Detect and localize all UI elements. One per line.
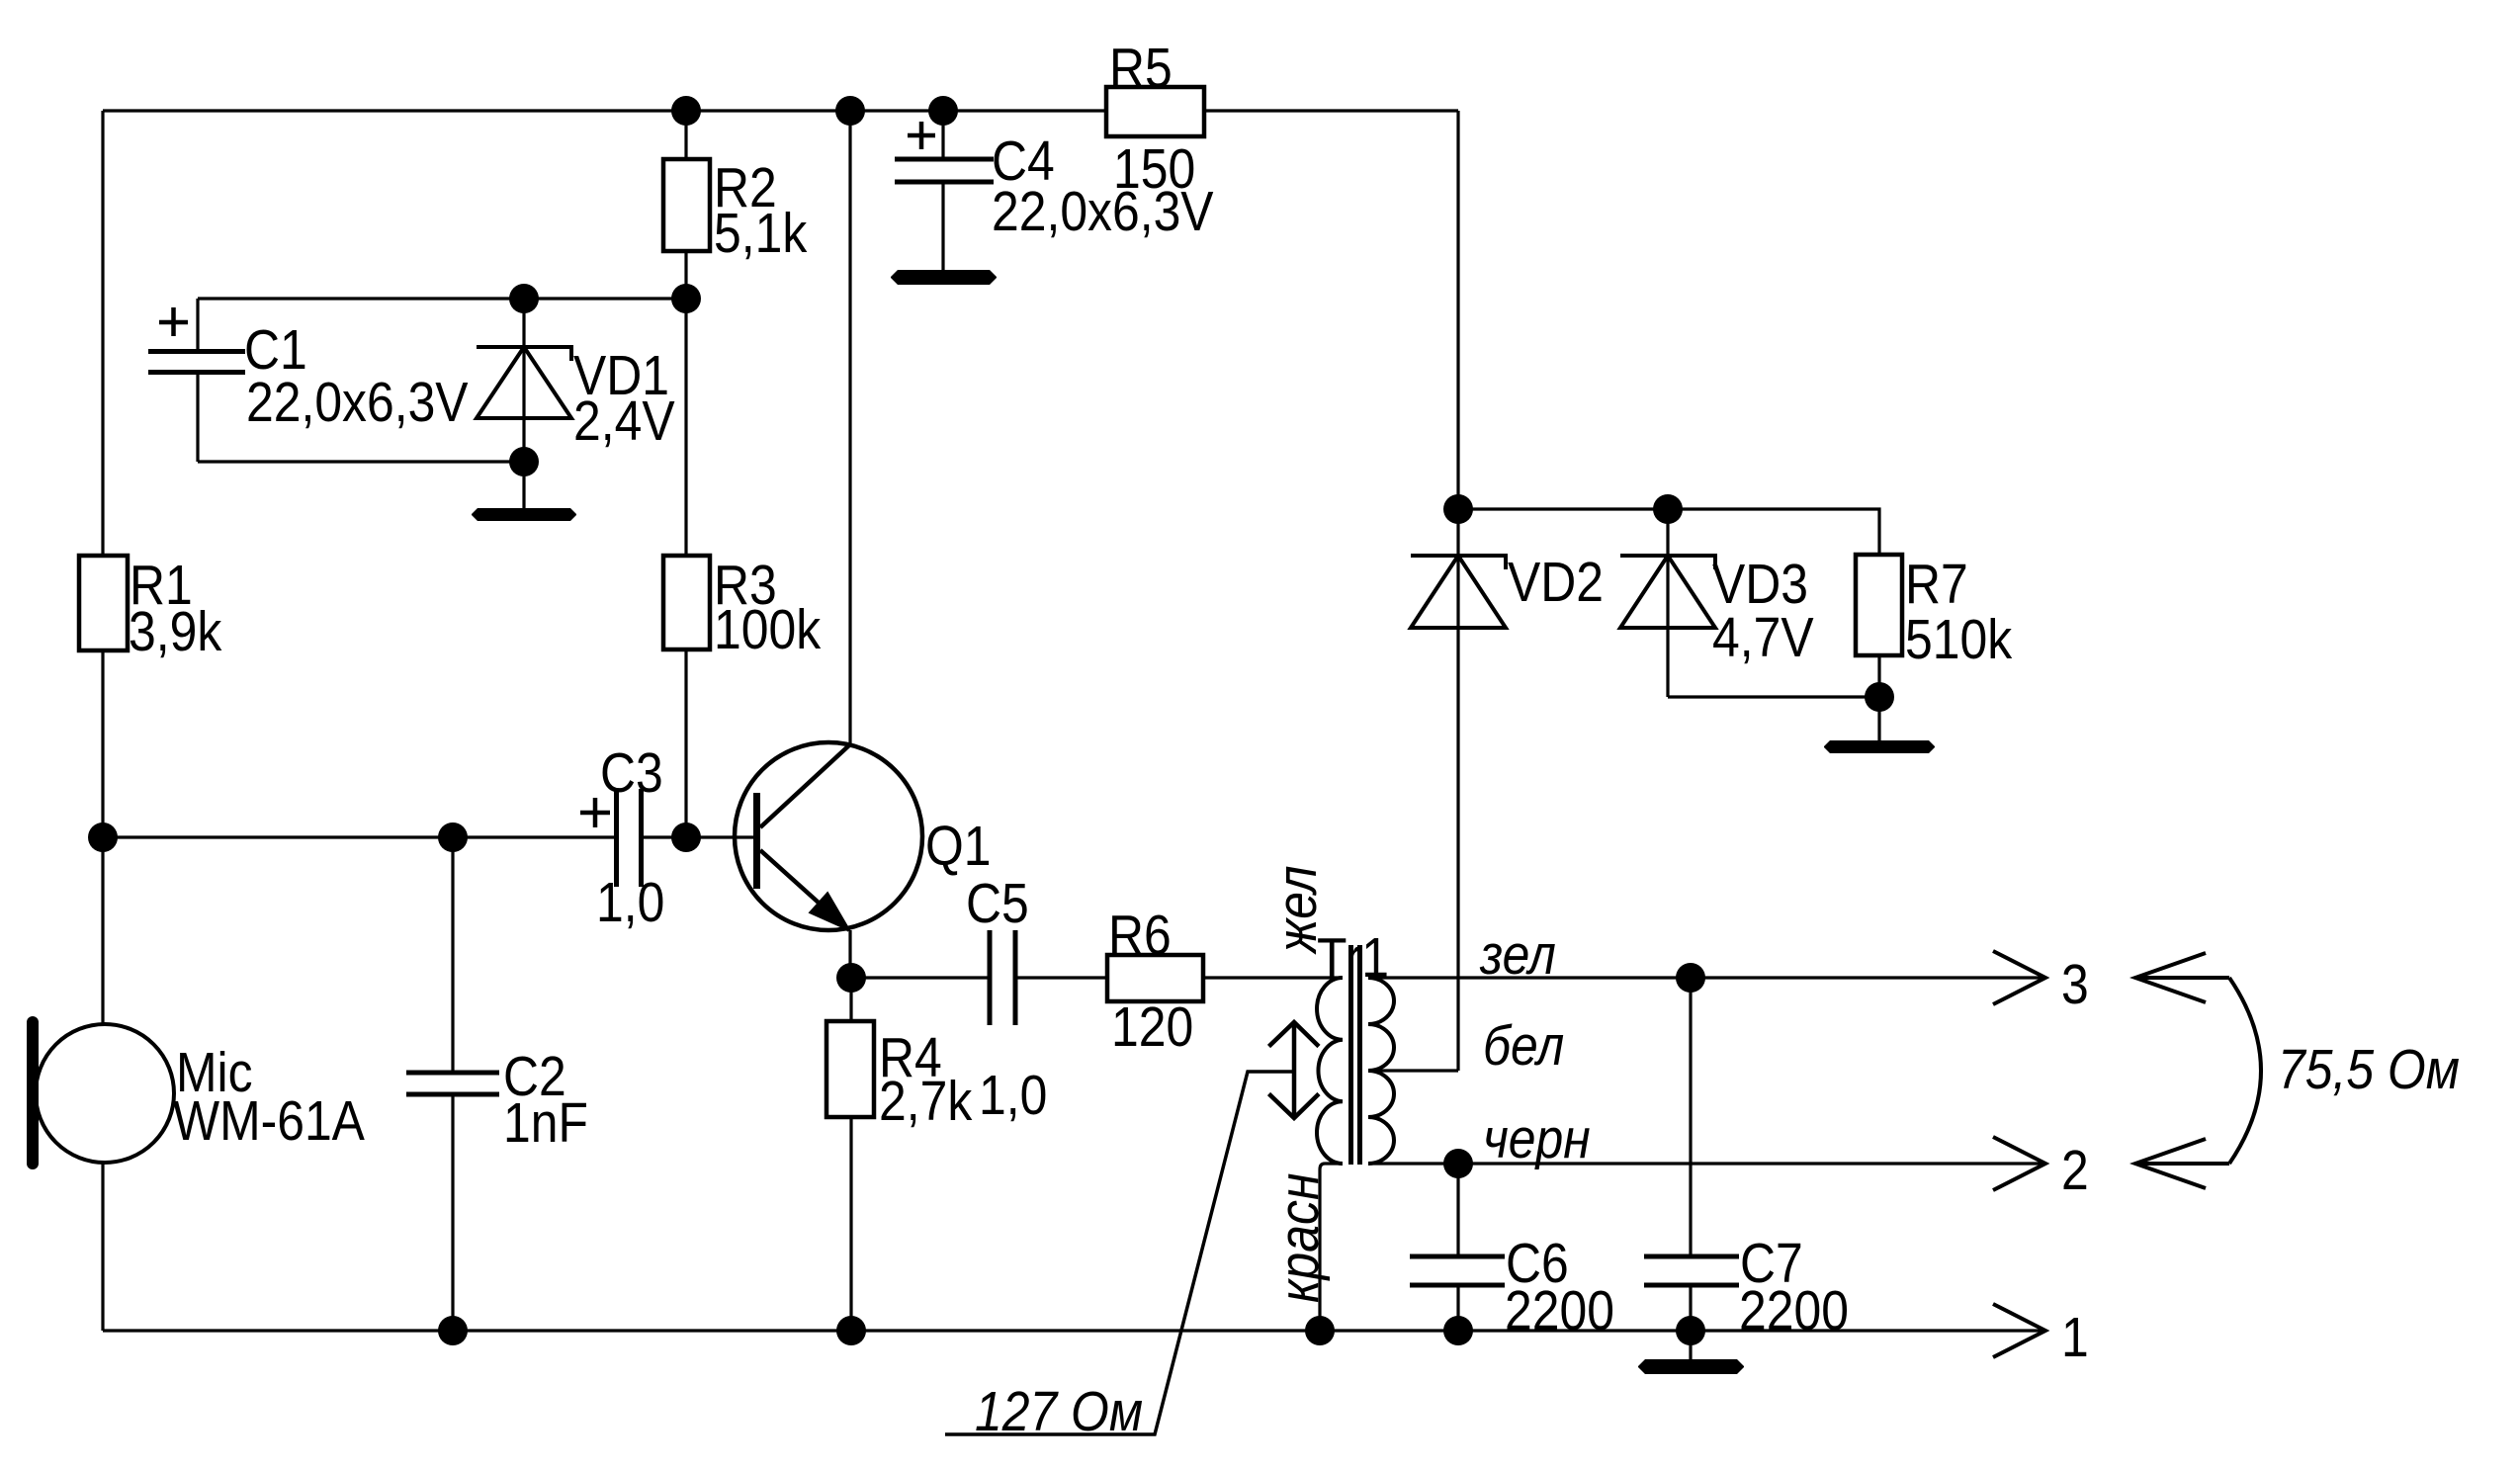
wire R6 to transformer primary xyxy=(1203,976,1343,979)
wire left vertical rail (through R1) xyxy=(101,111,104,1025)
wire mic bottom to ground rail xyxy=(101,1162,104,1331)
svg-text:1: 1 xyxy=(2061,1307,2089,1369)
svg-text:100k: 100k xyxy=(714,599,821,661)
svg-text:2200: 2200 xyxy=(1505,1280,1614,1342)
resistor R4 xyxy=(826,1021,874,1117)
wire Q1 base line left segment xyxy=(103,835,616,838)
zener diode VD2 xyxy=(1411,556,1506,628)
wire green tap (zel) to pin 3 xyxy=(1368,976,2045,979)
wire black tap (chern) to pin 2 xyxy=(1368,1162,2045,1165)
wire transformer white tap (bel) xyxy=(1368,1069,1458,1072)
wire C7 bottom lead xyxy=(1689,1285,1692,1331)
junction node VD1 top right xyxy=(671,284,701,313)
svg-text:510k: 510k xyxy=(1905,609,2012,671)
svg-text:75,5 Ом: 75,5 Ом xyxy=(2278,1039,2460,1101)
wire Q1 base line right segment xyxy=(642,835,753,838)
wire C1 top leg xyxy=(196,299,199,351)
resistor R6 xyxy=(1107,955,1203,1001)
resistor R2 xyxy=(663,159,710,251)
wire VD3 anode to R7 bottom xyxy=(1668,695,1879,698)
wire C6 top lead xyxy=(1456,1164,1459,1256)
capacitor C1 (polarized) xyxy=(148,352,245,373)
svg-text:C3: C3 xyxy=(600,742,663,805)
capacitor C3 (polarized, in base line) xyxy=(617,789,642,887)
resistor R1 xyxy=(79,556,128,650)
pin 1 arrow xyxy=(1993,1304,2045,1357)
svg-text:2,4V: 2,4V xyxy=(573,390,675,453)
svg-text:зел: зел xyxy=(1479,924,1556,987)
junction node chern at C6 xyxy=(1443,1149,1473,1178)
ground symbol at C4 xyxy=(891,270,997,285)
svg-text:4,7V: 4,7V xyxy=(1712,607,1814,669)
svg-text:5,1k: 5,1k xyxy=(714,203,807,265)
transformer Tr1 primary winding xyxy=(1317,978,1343,1164)
junction node R7 bottom xyxy=(1865,682,1894,712)
wire C7 top lead from zel node xyxy=(1689,978,1692,1256)
resistor R3 xyxy=(663,556,710,649)
wire VD2 vertical down to white tap xyxy=(1456,509,1459,1071)
wire C7 ground stub xyxy=(1689,1331,1692,1359)
junction node rail at krasn xyxy=(1305,1316,1335,1345)
wire C4 top lead xyxy=(941,111,944,159)
junction node on top rail at R2 xyxy=(671,96,701,126)
svg-text:2: 2 xyxy=(2061,1140,2089,1202)
junction node rail at C7 xyxy=(1676,1316,1705,1345)
wire node A horizontal to R7 xyxy=(1458,509,1879,555)
svg-text:жел: жел xyxy=(1266,865,1329,954)
wire C4 ground stub xyxy=(941,182,944,270)
wire VD3 vertical xyxy=(1666,509,1669,697)
svg-text:бел: бел xyxy=(1483,1015,1564,1078)
junction node on top rail at collector xyxy=(835,96,865,126)
plus sign of C4 xyxy=(908,122,935,149)
junction node rail at C2 xyxy=(438,1316,468,1345)
svg-text:черн: черн xyxy=(1483,1108,1591,1170)
wire R4 column emitter node to ground rail xyxy=(849,978,852,1331)
junction node base line at R3 xyxy=(671,822,701,852)
cable side chevron pin 3 xyxy=(2135,953,2229,1002)
wire Q1 emitter to node xyxy=(848,930,851,978)
junction node rail at R4 xyxy=(836,1316,866,1345)
wire VD1 bottom net xyxy=(198,460,524,463)
wire emitter node to C5 xyxy=(850,976,990,979)
svg-text:R5: R5 xyxy=(1109,38,1173,100)
ground symbol at C7 xyxy=(1638,1359,1744,1374)
junction node emitter xyxy=(836,963,866,993)
wire right drop from R5 corner to VD2 node xyxy=(1456,111,1459,509)
wire C2 top lead xyxy=(451,837,454,1073)
ground symbol at VD1 xyxy=(472,508,576,521)
wire Q1 collector xyxy=(848,111,851,744)
resistor R7 xyxy=(1856,555,1902,655)
junction node VD1 top left xyxy=(509,284,539,313)
wire VD1 vertical with ground stub xyxy=(522,299,525,508)
wire C6 bottom lead xyxy=(1456,1285,1459,1331)
cable side chevron pin 2 xyxy=(2135,1139,2229,1188)
svg-text:2,7k: 2,7k xyxy=(879,1071,972,1133)
capacitor C2 xyxy=(406,1073,499,1094)
junction node rail at C6 xyxy=(1443,1316,1473,1345)
svg-text:красн: красн xyxy=(1268,1173,1331,1303)
capacitor C7 xyxy=(1644,1256,1739,1285)
svg-text:1,0: 1,0 xyxy=(979,1065,1047,1127)
svg-text:22,0x6,3V: 22,0x6,3V xyxy=(246,372,469,434)
junction node at VD3 xyxy=(1653,494,1683,524)
wire transformer red lead (krasn) to ground rail xyxy=(1320,1164,1343,1331)
zener diode VD3 xyxy=(1620,556,1715,628)
svg-text:2200: 2200 xyxy=(1739,1280,1849,1342)
ground symbol at R7 xyxy=(1824,740,1935,753)
svg-text:R6: R6 xyxy=(1108,905,1172,967)
svg-text:VD2: VD2 xyxy=(1508,552,1604,614)
svg-text:R7: R7 xyxy=(1905,554,1968,616)
wire C2 bottom lead xyxy=(451,1094,454,1331)
plus sign of C3 xyxy=(580,798,610,827)
wire VD1 top net xyxy=(198,297,686,300)
wire R7 bottom lead and ground stub xyxy=(1877,655,1880,740)
svg-text:3: 3 xyxy=(2061,954,2089,1016)
resistor R5 xyxy=(1106,87,1204,136)
transistor Q1 xyxy=(735,742,922,930)
variable inductance double arrow xyxy=(1269,1022,1320,1118)
svg-text:1nF: 1nF xyxy=(503,1092,588,1155)
plus sign of C1 xyxy=(159,307,188,336)
wire bottom ground rail xyxy=(103,1329,2045,1332)
wire top power rail xyxy=(103,109,1458,112)
pin 2 arrow xyxy=(1993,1137,2045,1190)
svg-text:3,9k: 3,9k xyxy=(129,601,221,663)
svg-text:22,0x6,3V: 22,0x6,3V xyxy=(992,181,1214,243)
junction node VD1 bottom xyxy=(509,447,539,476)
svg-text:C5: C5 xyxy=(966,873,1029,935)
pin 3 arrow xyxy=(1993,951,2045,1004)
svg-text:1,0: 1,0 xyxy=(596,872,664,934)
svg-text:127 Ом: 127 Ом xyxy=(975,1381,1143,1443)
transformer Tr1 secondary winding xyxy=(1368,978,1394,1164)
capacitor C5 xyxy=(990,930,1015,1025)
capacitor C4 (polarized) xyxy=(895,159,994,182)
svg-text:WM-61A: WM-61A xyxy=(173,1090,365,1153)
junction node zel at C7 xyxy=(1676,963,1705,993)
callout line for 127 Om xyxy=(945,1072,1293,1434)
svg-text:120: 120 xyxy=(1111,996,1193,1059)
wire C1 bottom leg xyxy=(196,373,199,462)
wire C5 to R6 xyxy=(1015,976,1107,979)
cable impedance arc xyxy=(2229,978,2261,1164)
zener diode VD1 xyxy=(477,347,571,418)
junction node A at VD2 xyxy=(1443,494,1473,524)
microphone Mic WM-61A xyxy=(27,1016,174,1169)
capacitor C6 xyxy=(1410,1256,1505,1285)
wire R2-R3 column xyxy=(684,111,687,837)
junction node base line left xyxy=(88,822,118,852)
junction node on top rail at C4 xyxy=(928,96,958,126)
svg-text:Q1: Q1 xyxy=(925,816,992,878)
transformer Tr1 core xyxy=(1351,945,1360,1165)
junction node base line at C2 xyxy=(438,822,468,852)
